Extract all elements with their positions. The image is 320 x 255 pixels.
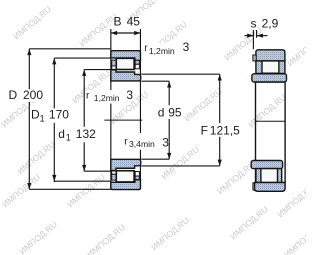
svg-text:ИМПОД.RU: ИМПОД.RU [282,222,306,255]
svg-text:ИМПОД.RU: ИМПОД.RU [17,219,59,255]
svg-text:3,4min: 3,4min [129,139,155,149]
svg-text:ИМПОД.RU: ИМПОД.RU [159,144,201,181]
svg-text:d: d [58,127,65,141]
svg-text:45: 45 [127,14,141,28]
svg-text:ИМПОД.RU: ИМПОД.RU [0,172,42,209]
svg-text:3: 3 [162,136,169,150]
svg-text:1: 1 [40,113,45,123]
svg-text:200: 200 [23,88,43,102]
svg-text:s: s [251,16,257,30]
svg-text:2,9: 2,9 [262,16,279,30]
svg-text:ИМПОД.RU: ИМПОД.RU [15,139,57,176]
svg-text:d: d [158,105,165,119]
svg-text:ИМПОД.RU: ИМПОД.RU [182,86,224,123]
svg-text:1: 1 [66,133,71,143]
svg-text:B: B [114,14,122,28]
svg-text:170: 170 [49,108,69,122]
svg-text:3: 3 [183,40,190,54]
svg-text:ИМПОД.RU: ИМПОД.RU [285,31,306,68]
svg-text:ИМПОД.RU: ИМПОД.RU [65,172,107,209]
svg-text:1,2min: 1,2min [94,93,120,103]
svg-text:D: D [9,88,18,102]
svg-text:3: 3 [126,88,133,102]
svg-text:F: F [201,123,208,137]
svg-text:121,5: 121,5 [210,123,240,137]
svg-text:ИМПОД.RU: ИМПОД.RU [11,4,53,41]
svg-text:132: 132 [76,127,96,141]
svg-text:ИМПОД.RU: ИМПОД.RU [228,204,270,241]
svg-text:1,2min: 1,2min [149,46,175,56]
svg-text:ИМПОД.RU: ИМПОД.RU [149,215,191,252]
svg-text:95: 95 [168,105,182,119]
svg-text:ИМПОД.RU: ИМПОД.RU [246,92,288,129]
svg-text:ИМПОД.RU: ИМПОД.RU [85,222,127,255]
